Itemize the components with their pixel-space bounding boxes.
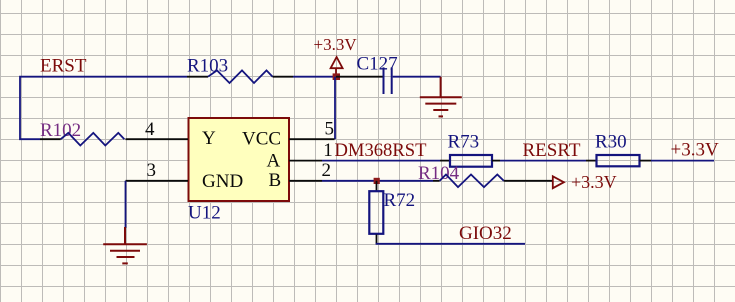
svg-text:1: 1 [323, 140, 333, 161]
wire pin B to junction and R104 [322, 180, 433, 182]
svg-text:4: 4 [145, 119, 155, 140]
svg-text:+3.3V: +3.3V [571, 172, 617, 192]
svg-text:Y: Y [202, 128, 216, 149]
svg-text:GIO32: GIO32 [459, 223, 512, 244]
U12 pin 1 (A) line [289, 160, 322, 162]
U12 pin 5 line [289, 138, 335, 140]
svg-text:U12: U12 [188, 202, 221, 223]
resistor R30 body [597, 155, 640, 166]
capacitor C127 left pin wire (node to left plate) [336, 76, 383, 78]
svg-text:RESRT: RESRT [523, 140, 581, 161]
svg-text:DM368RST: DM368RST [335, 140, 428, 161]
resistor R104 zigzag [440, 175, 504, 188]
resistor R73 body [450, 155, 492, 167]
wire C127 right plate to ground corner [393, 76, 441, 78]
svg-text:GND: GND [202, 171, 243, 192]
svg-text:+3.3V: +3.3V [314, 35, 358, 54]
resistor R72 top pin stub [376, 181, 378, 192]
svg-text:+3.3V: +3.3V [671, 140, 719, 161]
resistor R104 left pin [433, 180, 440, 182]
svg-text:2: 2 [322, 160, 332, 181]
wire +3.3V node down to pin 5 [334, 77, 336, 140]
wire ERST net: left corner from top row down to R102 row [20, 77, 187, 140]
ground symbol top right [420, 77, 462, 117]
U12 pin 4 line [126, 138, 189, 140]
wire R73 to R30 [500, 160, 586, 162]
svg-text:R72: R72 [384, 190, 416, 211]
wire R72 to GIO32 [376, 243, 525, 245]
resistor R103 zigzag [208, 70, 273, 83]
wire pin A to R73 [322, 160, 440, 162]
svg-text:R73: R73 [448, 131, 480, 152]
wire pin3 corner down to ground [125, 181, 127, 228]
svg-text:3: 3 [147, 160, 157, 181]
ground symbol bottom left [103, 227, 147, 263]
svg-text:R102: R102 [40, 120, 81, 141]
resistor R73 left pin stub [440, 160, 450, 162]
capacitor C127 plates [384, 67, 392, 94]
svg-text:B: B [269, 170, 282, 191]
power port +3.3V mid arrow symbol [553, 176, 564, 188]
svg-text:ERST: ERST [40, 55, 87, 76]
U12 pin 2 (B) line [289, 180, 322, 182]
wire R30 to +3.3V right [651, 160, 714, 162]
svg-text:5: 5 [325, 119, 335, 140]
resistor R103 right pin [273, 76, 293, 78]
U12 pin 3 line [126, 180, 189, 182]
svg-text:A: A [267, 150, 281, 171]
resistor R102 left pin [40, 138, 61, 140]
resistor R104 right pin / wire to power arrow [504, 180, 552, 182]
wire R103 to +3.3V junction [293, 76, 335, 78]
svg-text:R103: R103 [187, 55, 228, 76]
power port +3.3V top arrow symbol [331, 57, 343, 77]
junction dot at +3.3V node [333, 73, 340, 80]
resistor R72 body [369, 191, 383, 234]
resistor R30 left pin stub [586, 160, 597, 162]
resistor R30 right pin stub [640, 160, 652, 162]
resistor R72 bottom pin stub [376, 235, 378, 244]
svg-text:VCC: VCC [242, 129, 281, 150]
svg-text:R30: R30 [595, 131, 627, 152]
resistor R73 right pin stub [492, 160, 500, 162]
resistor R102 zigzag [61, 133, 125, 146]
component U12 body [189, 118, 290, 201]
resistor R103 left pin [187, 76, 208, 78]
junction dot at R72 node [374, 178, 380, 184]
